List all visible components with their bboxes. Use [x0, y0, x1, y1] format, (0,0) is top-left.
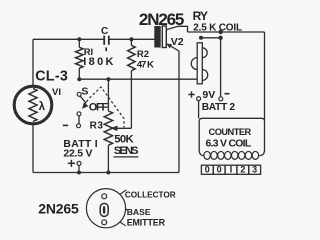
svg-text:2N265: 2N265	[38, 200, 79, 216]
svg-text:BASE: BASE	[127, 207, 151, 217]
svg-text:S: S	[81, 85, 88, 97]
svg-text:R2: R2	[137, 49, 149, 60]
svg-text:VI: VI	[52, 87, 61, 98]
svg-text:3: 3	[252, 165, 257, 175]
svg-text:CL-3: CL-3	[35, 68, 68, 84]
svg-text:C: C	[101, 26, 108, 37]
svg-text:6.3 V COIL: 6.3 V COIL	[206, 139, 252, 150]
svg-text:0: 0	[217, 165, 222, 175]
svg-text:50K: 50K	[114, 133, 134, 145]
svg-text:0: 0	[205, 165, 210, 175]
svg-text:EMITTER: EMITTER	[127, 217, 166, 227]
svg-text:BATT 2: BATT 2	[202, 102, 236, 113]
svg-text:SENS: SENS	[114, 145, 138, 157]
svg-text:22.5 V: 22.5 V	[63, 148, 92, 159]
svg-text:COLLECTOR: COLLECTOR	[125, 190, 176, 199]
svg-text:9V: 9V	[202, 89, 215, 101]
svg-text:2: 2	[240, 165, 245, 175]
svg-text:OFF: OFF	[89, 102, 109, 114]
svg-text:I80K: I80K	[83, 56, 115, 68]
svg-text:47 K: 47 K	[137, 59, 154, 70]
svg-text:I: I	[230, 165, 233, 175]
svg-text:R3: R3	[90, 121, 104, 132]
svg-text:V2: V2	[171, 36, 184, 48]
svg-text:λ: λ	[39, 101, 46, 113]
svg-text:RY: RY	[193, 9, 208, 23]
svg-text:2N265: 2N265	[139, 10, 184, 29]
svg-text:COUNTER: COUNTER	[209, 127, 252, 137]
